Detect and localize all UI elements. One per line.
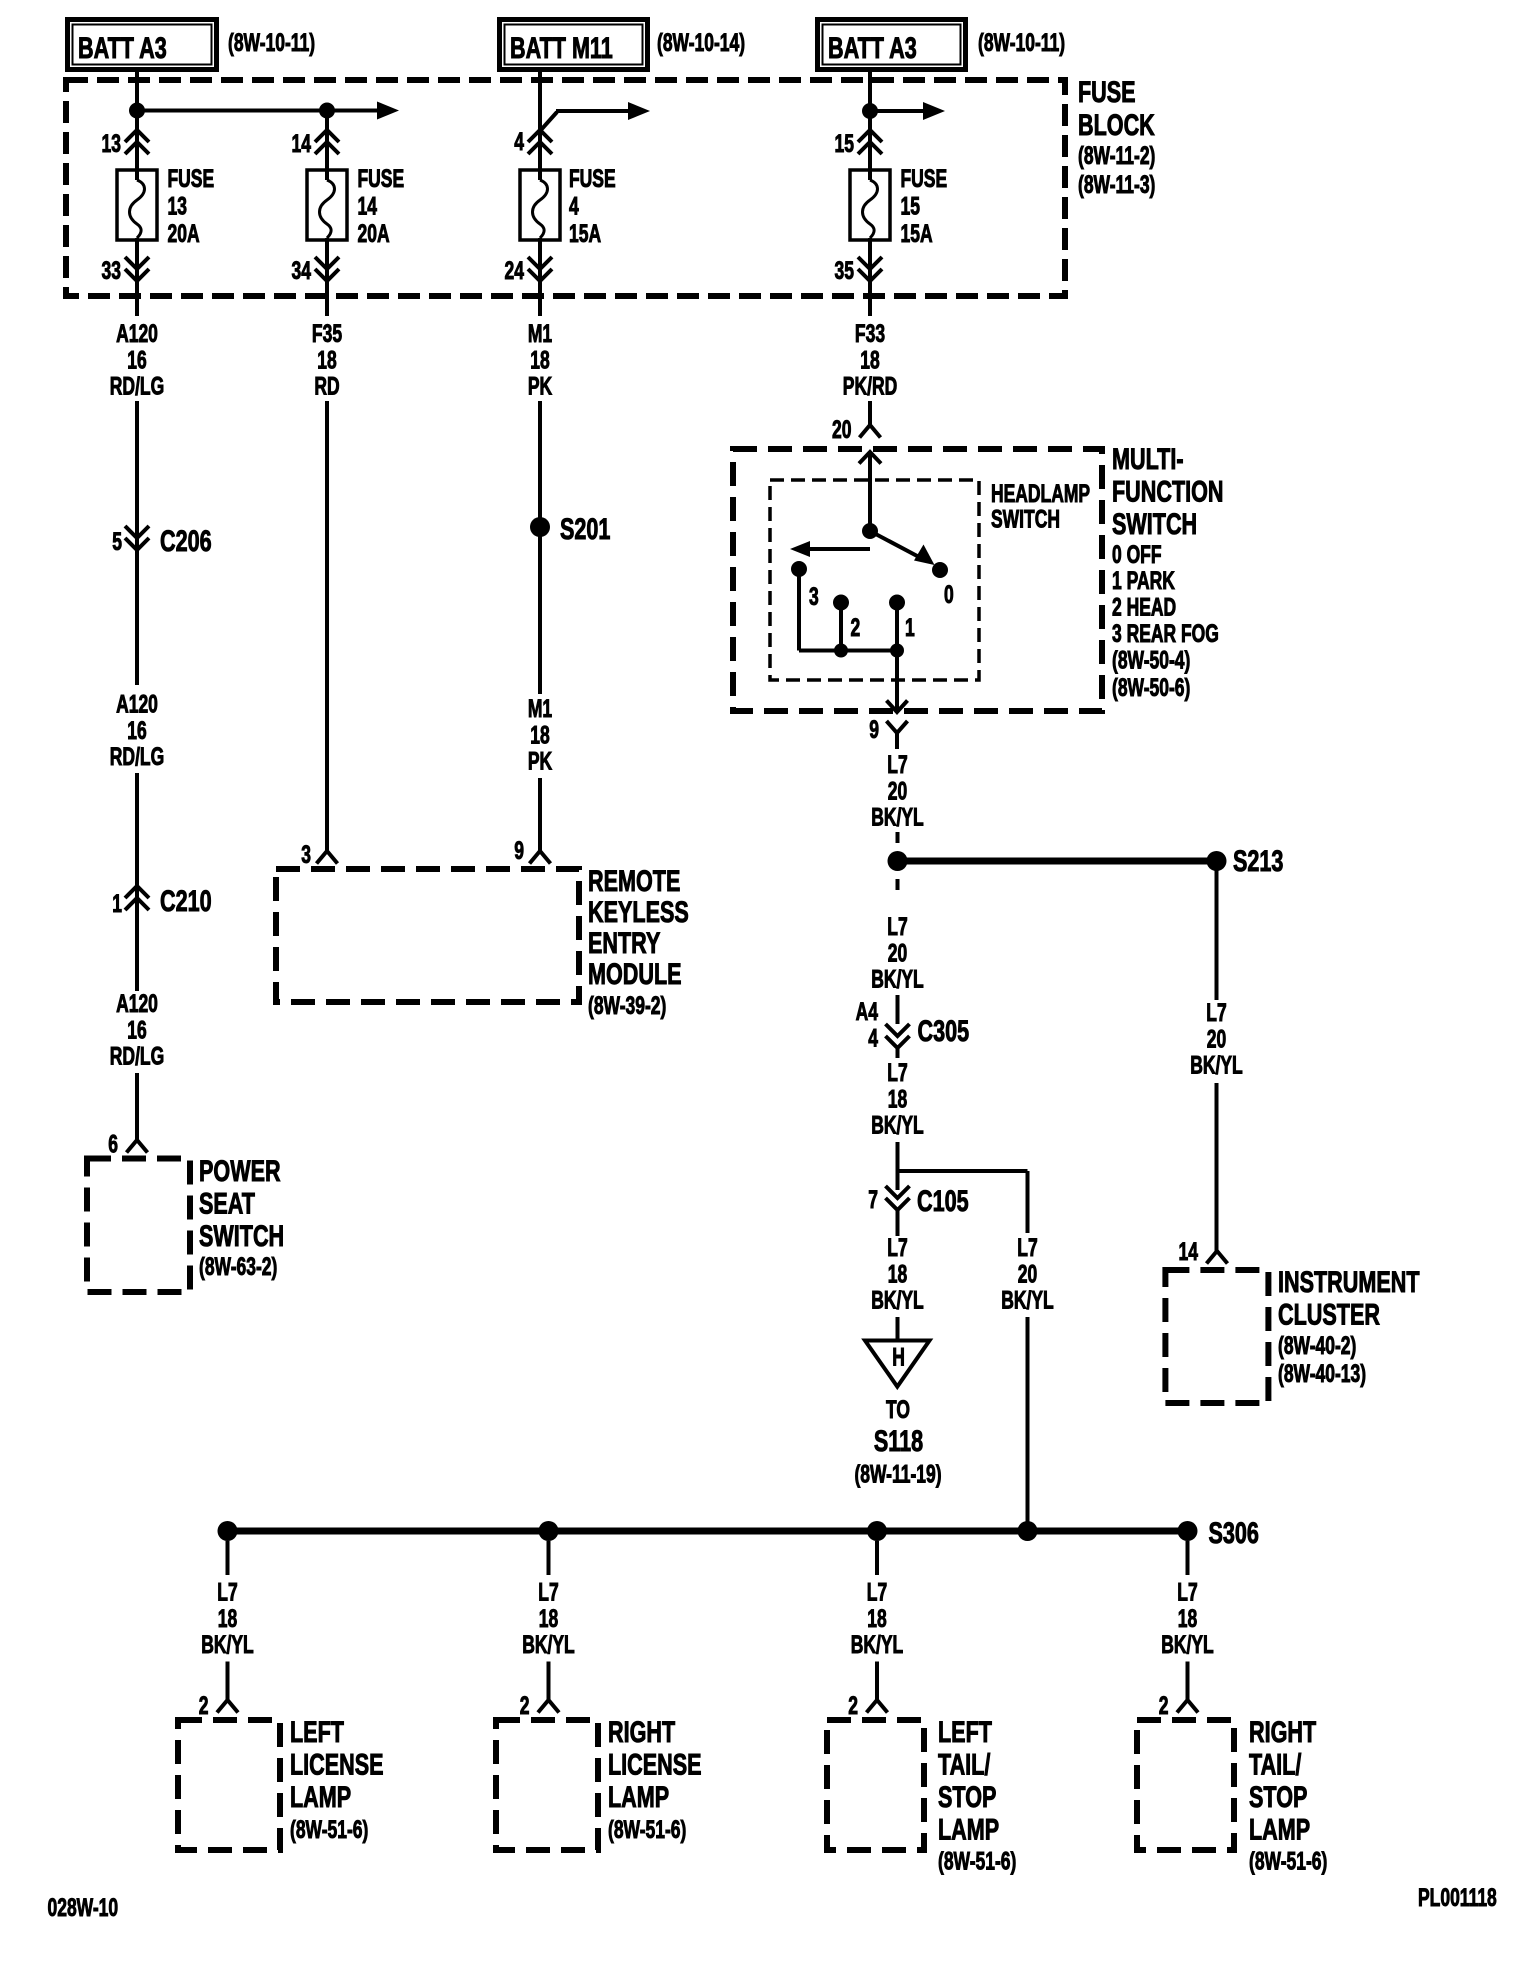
- svg-text:L7: L7: [1177, 1577, 1197, 1606]
- ground distribution triangle H: [865, 1341, 930, 1387]
- svg-text:BK/YL: BK/YL: [1161, 1630, 1213, 1659]
- dashed wire below splice: [896, 879, 900, 890]
- svg-text:REMOTE: REMOTE: [588, 863, 680, 897]
- power seat switch dashed box: [87, 1159, 190, 1293]
- svg-text:A120: A120: [116, 989, 158, 1018]
- wire fuse 15 to multi-function switch: [868, 238, 872, 316]
- svg-text:L7: L7: [538, 1577, 558, 1606]
- svg-text:3: 3: [301, 840, 311, 869]
- svg-text:F35: F35: [312, 319, 342, 348]
- svg-text:(8W-51-6): (8W-51-6): [1249, 1846, 1327, 1875]
- switch contact 3: [791, 561, 807, 577]
- svg-text:PK: PK: [528, 746, 553, 775]
- svg-text:RD/LG: RD/LG: [110, 371, 164, 400]
- pin 9 connector (switch output): [887, 721, 908, 733]
- fuse 13 element: [130, 180, 145, 238]
- svg-text:16: 16: [127, 716, 146, 745]
- svg-text:STOP: STOP: [1249, 1779, 1307, 1813]
- bus wire to fuse 14 with arrow: [137, 109, 327, 113]
- svg-text:L7: L7: [887, 750, 907, 779]
- svg-text:L7: L7: [867, 1577, 887, 1606]
- svg-text:FUSE: FUSE: [358, 164, 405, 193]
- svg-text:LEFT: LEFT: [290, 1714, 344, 1748]
- svg-text:18: 18: [888, 1084, 907, 1113]
- in-line connector C105: [886, 1186, 910, 1210]
- pin 9 male arrow (switch output): [887, 701, 908, 713]
- svg-text:(8W-51-6): (8W-51-6): [290, 1815, 368, 1844]
- svg-text:(8W-10-11): (8W-10-11): [978, 28, 1065, 57]
- svg-text:18: 18: [888, 1259, 907, 1288]
- fuse 13 body: [117, 170, 157, 240]
- svg-text:BATT M11: BATT M11: [510, 30, 613, 64]
- svg-text:ENTRY: ENTRY: [588, 925, 660, 959]
- pin 15 connector chevrons: [858, 130, 882, 154]
- svg-text:C210: C210: [160, 883, 212, 917]
- splice S201: [530, 517, 550, 537]
- svg-text:5: 5: [112, 527, 122, 556]
- wire bus to right tail/stop lamp: [1186, 1541, 1190, 1575]
- pin 9 connector (RKE): [530, 851, 551, 864]
- wire to S213: [898, 858, 1217, 865]
- fuse block feed arrow (M11): [540, 112, 557, 131]
- svg-text:7: 7: [868, 1185, 878, 1214]
- switch contact 1: [889, 595, 905, 611]
- svg-text:2: 2: [520, 1691, 530, 1720]
- svg-text:16: 16: [127, 345, 146, 374]
- wire bus to left license lamp: [226, 1541, 230, 1575]
- wire pin 20 to switch pivot: [868, 452, 872, 531]
- junction dot right license lamp: [539, 1521, 559, 1541]
- svg-text:15A: 15A: [901, 219, 933, 248]
- svg-text:BK/YL: BK/YL: [871, 1110, 923, 1139]
- svg-text:BK/YL: BK/YL: [871, 964, 923, 993]
- svg-text:24: 24: [505, 256, 524, 285]
- svg-text:H: H: [892, 1342, 905, 1371]
- svg-text:M1: M1: [528, 319, 552, 348]
- svg-text:(8W-51-6): (8W-51-6): [608, 1815, 686, 1844]
- left license lamp dashed box: [178, 1720, 280, 1850]
- switch throw direction arrow: [804, 547, 870, 551]
- svg-text:(8W-11-3): (8W-11-3): [1078, 170, 1155, 199]
- switch contact 0: [932, 562, 948, 578]
- svg-text:SWITCH: SWITCH: [1112, 506, 1197, 540]
- svg-text:34: 34: [292, 256, 311, 285]
- pin 34 connector chevrons: [315, 257, 339, 281]
- svg-text:L7: L7: [1017, 1233, 1037, 1262]
- svg-text:BK/YL: BK/YL: [871, 802, 923, 831]
- svg-text:18: 18: [539, 1604, 558, 1633]
- battery feed box BATT A3 (right): [818, 20, 966, 70]
- svg-text:FUSE: FUSE: [168, 164, 215, 193]
- pin 14 connector: [1207, 1251, 1228, 1264]
- svg-text:RIGHT: RIGHT: [608, 1714, 675, 1748]
- svg-text:2: 2: [1159, 1691, 1169, 1720]
- svg-text:L7: L7: [887, 1058, 907, 1087]
- left tail/stop lamp dashed box: [827, 1720, 924, 1850]
- svg-text:(8W-50-4): (8W-50-4): [1112, 645, 1190, 674]
- svg-text:13: 13: [168, 191, 187, 220]
- battery feed box BATT A3 (left): [68, 20, 217, 70]
- svg-text:C305: C305: [918, 1013, 970, 1047]
- svg-text:(8W-39-2): (8W-39-2): [588, 991, 666, 1020]
- wire C305 to C105: [896, 1142, 900, 1190]
- svg-text:(8W-51-6): (8W-51-6): [938, 1846, 1016, 1875]
- switch wiper arm with arrow: [870, 531, 920, 558]
- wire to ground symbol: [896, 1317, 900, 1340]
- svg-text:SEAT: SEAT: [199, 1186, 255, 1220]
- svg-text:L7: L7: [1206, 998, 1226, 1027]
- splice junction dot: [888, 851, 908, 871]
- svg-text:15A: 15A: [569, 219, 601, 248]
- wire BATT M11 to fuse 4: [538, 72, 542, 180]
- svg-text:9: 9: [514, 836, 524, 865]
- wire C210 to power seat switch: [135, 1073, 139, 1140]
- in-line connector C206: [125, 526, 149, 550]
- branch wire to tail lamps: [898, 1169, 1028, 1173]
- junction dot left license lamp: [218, 1521, 238, 1541]
- svg-text:0 OFF: 0 OFF: [1112, 540, 1162, 569]
- dashed wire to splice S213: [896, 832, 900, 843]
- svg-text:(8W-10-11): (8W-10-11): [228, 28, 315, 57]
- svg-text:LICENSE: LICENSE: [290, 1747, 384, 1781]
- svg-text:20: 20: [888, 938, 907, 967]
- svg-text:RD/LG: RD/LG: [110, 1041, 164, 1070]
- wire S201 to RKE module: [538, 527, 542, 694]
- right license lamp dashed box: [496, 1720, 598, 1850]
- svg-text:KEYLESS: KEYLESS: [588, 894, 689, 928]
- pin 2 connector (left tail/stop lamp): [867, 1700, 888, 1713]
- svg-text:LAMP: LAMP: [290, 1779, 351, 1813]
- pin 24 connector chevrons: [528, 257, 552, 281]
- fuse 15 body: [850, 170, 890, 240]
- multi-function switch dashed box: [733, 449, 1102, 711]
- svg-text:S306: S306: [1209, 1515, 1259, 1549]
- svg-text:TAIL/: TAIL/: [1249, 1747, 1301, 1781]
- svg-text:RD/LG: RD/LG: [110, 742, 164, 771]
- svg-text:20: 20: [1207, 1024, 1226, 1053]
- svg-text:14: 14: [292, 129, 311, 158]
- junction dot at fuse 15 feed: [862, 103, 878, 119]
- svg-text:2: 2: [851, 613, 861, 642]
- svg-text:RIGHT: RIGHT: [1249, 1714, 1316, 1748]
- fuse 15 element: [863, 180, 878, 238]
- svg-text:13: 13: [102, 129, 121, 158]
- fuse block feed arrow (A3): [870, 109, 923, 113]
- svg-text:POWER: POWER: [199, 1153, 281, 1187]
- wire contact 1 down: [895, 603, 899, 651]
- wire BATT A3 to fuse 13: [135, 72, 139, 180]
- wire fuse 4 to S201: [538, 238, 542, 316]
- junction dot branch feed: [1018, 1521, 1038, 1541]
- junction dot contact bus (1): [890, 644, 904, 658]
- svg-text:20: 20: [1018, 1259, 1037, 1288]
- svg-text:9: 9: [869, 715, 879, 744]
- svg-text:CLUSTER: CLUSTER: [1278, 1297, 1380, 1331]
- svg-text:3 REAR FOG: 3 REAR FOG: [1112, 619, 1219, 648]
- wire fuse 13 to C206: [135, 238, 139, 316]
- svg-text:C206: C206: [160, 523, 212, 557]
- svg-text:18: 18: [1178, 1604, 1197, 1633]
- svg-text:PK: PK: [528, 371, 553, 400]
- branch wire to S306 bus: [1026, 1317, 1030, 1531]
- svg-text:FUSE: FUSE: [901, 164, 948, 193]
- svg-text:L7: L7: [887, 912, 907, 941]
- tail lamp feed bus wire: [228, 1528, 1188, 1535]
- fuse 4 element: [533, 180, 548, 238]
- svg-text:RD: RD: [314, 371, 339, 400]
- svg-text:BATT A3: BATT A3: [78, 30, 167, 64]
- pin 20 male arrow: [859, 452, 881, 464]
- svg-text:(8W-40-2): (8W-40-2): [1278, 1331, 1356, 1360]
- right tail/stop lamp dashed box: [1137, 1720, 1234, 1850]
- svg-text:A4: A4: [856, 997, 878, 1026]
- wire BATT A3 to fuse 15: [868, 72, 872, 180]
- svg-text:LAMP: LAMP: [1249, 1812, 1310, 1846]
- svg-text:BK/YL: BK/YL: [851, 1630, 903, 1659]
- svg-text:S213: S213: [1233, 843, 1283, 877]
- wire contact 3 down: [797, 569, 801, 651]
- svg-text:35: 35: [835, 256, 854, 285]
- svg-text:BK/YL: BK/YL: [871, 1285, 923, 1314]
- svg-text:BK/YL: BK/YL: [201, 1630, 253, 1659]
- svg-text:A120: A120: [116, 689, 158, 718]
- svg-text:0: 0: [944, 580, 954, 609]
- svg-text:S201: S201: [560, 511, 610, 545]
- wire bus to left tail/stop lamp: [875, 1541, 879, 1575]
- junction dot at fuse block feed 1: [129, 103, 145, 119]
- switch pivot contact: [862, 523, 878, 539]
- svg-text:SWITCH: SWITCH: [199, 1218, 284, 1252]
- svg-text:4: 4: [569, 191, 579, 220]
- wire contact 2 down: [839, 603, 843, 651]
- pin 3 connector: [317, 851, 338, 864]
- svg-text:3: 3: [809, 582, 819, 611]
- svg-text:18: 18: [530, 345, 549, 374]
- svg-text:18: 18: [317, 345, 336, 374]
- wire contacts bus: [799, 649, 897, 653]
- svg-text:20: 20: [888, 776, 907, 805]
- svg-text:(8W-63-2): (8W-63-2): [199, 1252, 277, 1281]
- svg-text:16: 16: [127, 1015, 146, 1044]
- svg-text:L7: L7: [887, 1233, 907, 1262]
- pin 4 connector chevrons: [528, 130, 552, 154]
- svg-text:33: 33: [102, 256, 121, 285]
- svg-text:C105: C105: [917, 1183, 969, 1217]
- svg-text:MULTI-: MULTI-: [1112, 441, 1184, 475]
- switch contact 2: [833, 595, 849, 611]
- wire S213 to instrument cluster: [1215, 861, 1219, 1000]
- svg-text:LEFT: LEFT: [938, 1714, 992, 1748]
- svg-text:18: 18: [218, 1604, 237, 1633]
- svg-text:BK/YL: BK/YL: [1001, 1285, 1053, 1314]
- svg-text:2 HEAD: 2 HEAD: [1112, 593, 1176, 622]
- svg-text:S118: S118: [874, 1423, 923, 1457]
- svg-text:18: 18: [867, 1604, 886, 1633]
- in-line connector C210: [125, 886, 149, 910]
- pin 13 connector chevrons: [125, 130, 149, 154]
- svg-text:BK/YL: BK/YL: [1190, 1050, 1242, 1079]
- svg-text:1: 1: [112, 889, 122, 918]
- remote keyless entry module dashed box: [276, 869, 579, 1002]
- svg-text:LAMP: LAMP: [938, 1812, 999, 1846]
- fuse 14 body: [307, 170, 347, 240]
- wire bus to right license lamp: [547, 1541, 551, 1575]
- svg-text:20A: 20A: [168, 219, 200, 248]
- svg-text:SWITCH: SWITCH: [991, 504, 1060, 533]
- pin 33 connector chevrons: [125, 257, 149, 281]
- svg-text:18: 18: [530, 720, 549, 749]
- instrument cluster dashed box: [1165, 1270, 1268, 1403]
- pin 2 connector (right license lamp): [538, 1700, 559, 1713]
- svg-text:15: 15: [835, 129, 854, 158]
- svg-text:BK/YL: BK/YL: [522, 1630, 574, 1659]
- svg-text:STOP: STOP: [938, 1779, 996, 1813]
- wire switch output to pin 9: [895, 651, 899, 713]
- svg-text:2: 2: [199, 1691, 209, 1720]
- in-line connector C305: [886, 1024, 910, 1048]
- svg-text:LAMP: LAMP: [608, 1779, 669, 1813]
- svg-text:(8W-40-13): (8W-40-13): [1278, 1359, 1366, 1388]
- battery feed box BATT M11: [500, 20, 648, 70]
- svg-text:(8W-50-6): (8W-50-6): [1112, 673, 1190, 702]
- pin 2 connector (right tail/stop lamp): [1177, 1700, 1198, 1713]
- junction dot contact bus (2): [834, 644, 848, 658]
- svg-text:PK/RD: PK/RD: [843, 371, 897, 400]
- svg-text:028W-10: 028W-10: [48, 1893, 119, 1922]
- splice S306: [1178, 1521, 1198, 1541]
- headlamp switch inner dashed box: [770, 480, 979, 680]
- svg-text:(8W-11-2): (8W-11-2): [1078, 141, 1155, 170]
- wire fuse 14 to RKE module: [325, 238, 329, 316]
- svg-text:MODULE: MODULE: [588, 956, 682, 990]
- pin 20 connector: [860, 425, 881, 438]
- svg-text:INSTRUMENT: INSTRUMENT: [1278, 1264, 1420, 1298]
- svg-text:FUSE: FUSE: [569, 164, 616, 193]
- svg-text:(8W-10-14): (8W-10-14): [657, 28, 745, 57]
- svg-text:BATT A3: BATT A3: [828, 30, 917, 64]
- svg-text:TO: TO: [886, 1395, 910, 1424]
- svg-text:1: 1: [905, 613, 915, 642]
- svg-text:2: 2: [848, 1691, 858, 1720]
- svg-text:4: 4: [514, 127, 524, 156]
- fuse 4 body: [520, 170, 560, 240]
- svg-text:FUNCTION: FUNCTION: [1112, 474, 1224, 508]
- svg-text:1 PARK: 1 PARK: [1112, 566, 1175, 595]
- fuse block dashed outline: [66, 80, 1065, 296]
- fuse 14 element: [320, 180, 335, 238]
- svg-text:FUSE: FUSE: [1078, 74, 1136, 108]
- pin 6 connector: [127, 1140, 148, 1153]
- wire C206 to C210: [135, 773, 139, 991]
- svg-text:15: 15: [901, 191, 920, 220]
- wire to C305: [896, 995, 900, 1024]
- splice S213: [1207, 851, 1227, 871]
- svg-text:(8W-11-19): (8W-11-19): [854, 1459, 941, 1488]
- wire fuse 14 feed: [325, 111, 329, 181]
- svg-text:20A: 20A: [358, 219, 390, 248]
- svg-text:TAIL/: TAIL/: [938, 1747, 990, 1781]
- pin 2 connector (left license lamp): [217, 1700, 238, 1713]
- pin 14 connector chevrons: [315, 130, 339, 154]
- svg-text:6: 6: [108, 1129, 118, 1158]
- svg-text:L7: L7: [217, 1577, 237, 1606]
- svg-text:4: 4: [868, 1023, 878, 1052]
- svg-text:20: 20: [832, 415, 851, 444]
- svg-text:M1: M1: [528, 694, 552, 723]
- svg-text:BLOCK: BLOCK: [1078, 107, 1155, 141]
- svg-text:14: 14: [358, 191, 377, 220]
- svg-text:A120: A120: [116, 319, 158, 348]
- svg-text:18: 18: [860, 345, 879, 374]
- svg-text:14: 14: [1179, 1237, 1198, 1266]
- pin 35 connector chevrons: [858, 257, 882, 281]
- junction dot at fuse 14 feed: [319, 103, 335, 119]
- svg-text:LICENSE: LICENSE: [608, 1747, 702, 1781]
- svg-text:F33: F33: [855, 319, 885, 348]
- junction dot left tail lamp: [867, 1521, 887, 1541]
- svg-text:PL001118: PL001118: [1418, 1883, 1497, 1912]
